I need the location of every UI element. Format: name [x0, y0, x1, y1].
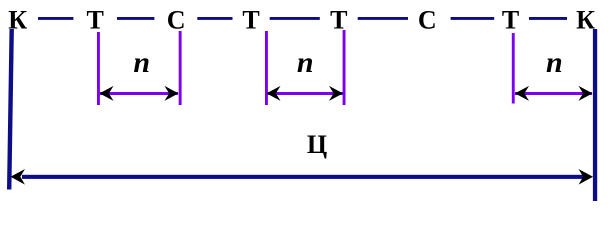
svg-text:Т: Т: [87, 6, 104, 35]
wire dash 4: [270, 17, 320, 20]
wire vertical navy left: [9, 29, 12, 190]
svg-text:n: n: [133, 46, 150, 79]
svg-text:Ц: Ц: [307, 130, 327, 159]
wire dash 2: [117, 17, 154, 20]
arrowhead A1 left: [100, 86, 114, 101]
arrowhead A2 left: [267, 86, 281, 101]
arrowhead A1 right: [165, 86, 179, 101]
arrowhead A3 right: [579, 86, 593, 101]
wire dash 5: [358, 17, 408, 20]
svg-text:С: С: [418, 6, 437, 35]
wire dash 3: [197, 17, 232, 20]
wire dash 1: [38, 17, 73, 20]
svg-text:С: С: [167, 6, 186, 35]
wire arrow line A3: [515, 92, 592, 95]
arrowhead bottom left: [11, 169, 26, 185]
wire vertical navy right: [593, 29, 597, 201]
svg-text:Т: Т: [242, 6, 259, 35]
wire purple extension P4: [343, 30, 346, 105]
arrowhead bottom right: [579, 169, 594, 185]
arrowhead A2 right: [329, 86, 343, 101]
wire purple extension P2: [179, 31, 182, 105]
wire purple extension P3: [265, 31, 268, 105]
wire purple extension P1: [97, 32, 100, 105]
wire purple extension P5: [512, 33, 515, 104]
wire arrow line bottom: [22, 175, 584, 179]
svg-text:n: n: [297, 46, 314, 79]
svg-text:Т: Т: [502, 6, 519, 35]
wire arrow line A1: [100, 92, 178, 95]
arrowhead A3 left: [515, 86, 529, 101]
wire dash 7: [529, 17, 567, 20]
svg-text:n: n: [546, 46, 563, 79]
svg-text:К: К: [576, 6, 595, 35]
wire arrow line A2: [267, 92, 343, 95]
wire dash 6: [451, 17, 495, 20]
